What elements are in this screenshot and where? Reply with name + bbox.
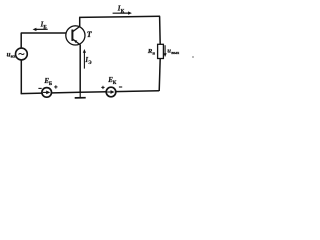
wire emitter (transistor to bottom junction) — [79, 45, 81, 93]
resistor Rн — [158, 44, 164, 58]
svg-text:вх: вх — [11, 53, 16, 58]
current arrow IК — [113, 11, 132, 14]
source uвх (AC source circle with tilde) — [16, 48, 28, 60]
wire bottom rail — [21, 91, 160, 94]
voltage arrow uвых — [164, 45, 167, 57]
svg-text:н: н — [152, 51, 155, 56]
battery EБ (EMF source circle with arrow) — [42, 88, 52, 98]
minus sign EБ — [38, 87, 41, 89]
wire left rail lower — [20, 60, 22, 94]
minus sign EК — [119, 86, 122, 88]
battery EК (EMF source circle with arrow) — [106, 87, 116, 97]
svg-text:Э: Э — [88, 61, 92, 66]
wire base (uвх to transistor base) — [21, 32, 66, 34]
wire right rail lower — [159, 58, 160, 91]
ground (common point bar below junction) — [75, 92, 86, 98]
svg-text:вых: вых — [171, 50, 180, 55]
plus sign EК — [101, 86, 104, 89]
svg-text:К: К — [113, 81, 117, 86]
transistor T (PNP, common emitter) — [66, 26, 85, 45]
wire collector — [79, 17, 81, 26]
current arrow IБ — [33, 28, 48, 31]
wire left rail upper — [20, 33, 22, 48]
wire top rail — [79, 16, 160, 17]
current arrow IЭ — [83, 49, 86, 69]
stray dot — [192, 56, 194, 58]
wire right rail upper — [159, 16, 162, 44]
svg-text:T: T — [87, 30, 93, 39]
plus sign EБ — [54, 85, 57, 88]
svg-text:Б: Б — [49, 82, 53, 87]
svg-text:К: К — [121, 10, 125, 15]
